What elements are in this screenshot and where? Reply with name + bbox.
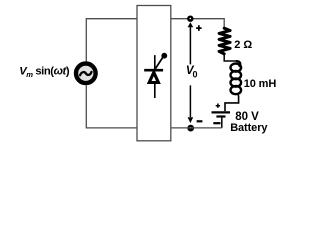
wire box to resistor (top right)	[171, 19, 224, 29]
wire source top-left	[86, 19, 137, 62]
battery plus	[216, 104, 220, 108]
plus sign top	[196, 25, 202, 31]
wire bottom right	[171, 127, 222, 129]
SCR gate lead	[156, 58, 163, 69]
wire source bottom-left	[86, 85, 137, 128]
battery minus	[213, 122, 220, 124]
battery long plate	[212, 111, 231, 113]
svg-text:10 mH: 10 mH	[244, 78, 277, 90]
SCR gate dot	[161, 53, 167, 59]
V0 line top	[189, 27, 191, 64]
wire battery to bottom	[221, 118, 223, 128]
svg-text:2 Ω: 2 Ω	[234, 39, 252, 51]
node top junction	[187, 16, 193, 22]
minus sign V0	[197, 120, 203, 122]
svg-text:80 V: 80 V	[235, 111, 259, 123]
AC source tilde	[80, 72, 91, 75]
V0 arrow down	[188, 117, 194, 123]
wire resistor to inductor	[224, 54, 236, 61]
svg-text:Battery: Battery	[230, 122, 268, 134]
AC source V_m circle	[76, 64, 96, 84]
SCR cathode lead	[154, 55, 156, 70]
SCR anode lead	[154, 84, 156, 98]
resistor R 2ohm	[219, 28, 230, 54]
V0 arrow up	[188, 22, 194, 27]
rectifier box	[137, 6, 171, 141]
svg-text:0: 0	[193, 70, 198, 80]
SCR triangle	[149, 72, 158, 82]
node bottom junction	[187, 125, 194, 132]
wire inductor to battery	[225, 93, 239, 111]
inductor L coil	[236, 61, 240, 66]
battery short plate	[216, 115, 225, 117]
V0 line bottom	[189, 85, 191, 117]
SCR cathode bar	[144, 69, 163, 72]
